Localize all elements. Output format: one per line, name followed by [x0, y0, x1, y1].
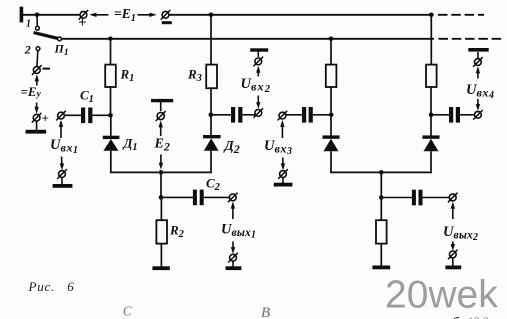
wire: output capacitor to Uвых2 terminal — [423, 197, 450, 199]
terminal: Uвх2 upper clamp — [254, 57, 264, 67]
wire: D2 anode down — [210, 151, 212, 173]
terminal: Uвх1 input clamp — [56, 111, 66, 121]
wire: Uвх3 return to ground — [282, 177, 284, 183]
resistor R1 — [105, 65, 116, 87]
svg-text:Д1: Д1 — [123, 136, 138, 154]
resistor (stage 4) — [426, 65, 437, 87]
ground (Uвых2) — [445, 266, 461, 270]
wire: node 1 to D1 cathode — [110, 115, 112, 135]
wire: second rail from switch pole — [61, 38, 434, 40]
switch П1 blade — [34, 33, 58, 39]
node: top rail / switch contact 1 — [35, 13, 40, 18]
terminal: Uвх3 return clamp — [278, 169, 288, 179]
wire: top rail main segment — [169, 14, 433, 16]
wire: Uвх3 terminal to stage-3 capacitor — [286, 114, 302, 116]
wire: second rail to stage-3 resistor — [330, 39, 332, 65]
wire: node 4 to D4 cathode — [430, 115, 432, 136]
diode Д2 — [203, 135, 221, 151]
wire: output node 2 down to stage-4 load resistor — [380, 198, 382, 221]
node: top rail / R3 branch — [209, 13, 214, 18]
wire: stage-3 resistor to node 3 — [330, 87, 332, 115]
wire: D4 anode down — [430, 151, 432, 173]
wire: arrow up toward Uвх3 terminal — [280, 120, 284, 138]
resistor (stage 3-4 load) — [376, 220, 387, 243]
wire: node 4 to stage-4 capacitor — [431, 114, 449, 116]
label: - (E1 polarity) — [162, 21, 172, 24]
wire: D1-D2 anode bus — [110, 171, 212, 173]
svg-text:В: В — [261, 305, 270, 319]
wire: arrow down toward Uвх4 line clamp — [476, 99, 480, 111]
node: second rail / stage-3 branch — [329, 37, 334, 42]
wire: anode bus down to output node 2 — [380, 172, 382, 197]
node 4 — [429, 113, 434, 118]
wire: output node 1 down to R2 — [160, 197, 162, 220]
wire: C2 to Uвых1 terminal — [204, 196, 230, 198]
wire: arrow up toward E2 terminal — [159, 120, 163, 136]
resistor (stage 3) — [326, 65, 337, 87]
svg-text:C1: C1 — [80, 88, 94, 106]
capacitor (stage-4 input) — [449, 107, 460, 123]
node 3 — [329, 113, 334, 118]
svg-text:E2: E2 — [154, 137, 170, 154]
wire: E2 ground stub — [160, 102, 162, 111]
svg-text:20wek: 20wek — [385, 274, 498, 317]
wire: anode bus down to output node 1 — [160, 172, 162, 197]
wire: arrow down toward Uвх3 return — [281, 158, 285, 171]
wire: Uвх1 terminal to C1 — [65, 114, 82, 116]
wire: arrow up toward Uвх4 upper clamp — [476, 66, 480, 78]
diode (stage 4) — [423, 135, 440, 151]
node: output 2 — [379, 195, 384, 200]
svg-text:Uвх3: Uвх3 — [264, 138, 292, 157]
wire: C1 to node 1 — [92, 114, 110, 116]
svg-text:=Eу: =Eу — [21, 84, 42, 100]
svg-text:2: 2 — [24, 43, 31, 57]
terminal: Uвых1 clamp — [228, 193, 238, 203]
ground (Uвх4, bar up) — [468, 48, 488, 52]
wire: R1 to node 1 — [110, 87, 112, 115]
label: - (Ey polarity) — [43, 68, 51, 70]
capacitor (stage-3 input) — [302, 107, 313, 123]
wire: arrow up toward Uвых2 terminal — [451, 202, 455, 219]
wire: arrow down toward Uвых1 return — [231, 242, 235, 254]
svg-text:=E1: =E1 — [114, 6, 136, 24]
wire: stage-4 branch from top rail (crosses second rail) — [430, 15, 432, 65]
wire: D3 anode down — [330, 151, 332, 173]
wire: arrow pointing to +E1 clamp — [89, 13, 108, 17]
ground (R2) — [152, 266, 169, 270]
svg-text:R3: R3 — [187, 66, 202, 84]
wire: node 2 to D2 cathode — [210, 115, 212, 135]
node: second rail / R1 branch — [108, 37, 113, 42]
wire: R3 to node 2 — [210, 88, 212, 115]
wire: arrow up toward -Ey terminal — [35, 74, 39, 85]
svg-text:C2: C2 — [206, 176, 221, 194]
svg-text:П1: П1 — [54, 42, 69, 59]
terminal: Uвых2 clamp — [448, 193, 458, 203]
wire: Uвых1 return to ground — [232, 261, 234, 267]
wire: top rail dashed continuation — [438, 14, 484, 16]
terminal: Uвых1 return clamp — [228, 253, 238, 263]
ground (Uвх2, bar up) — [250, 48, 268, 51]
ground (Uвх3) — [274, 183, 293, 187]
node: output 1 (R2 / C2) — [159, 195, 164, 200]
terminal: Uвх4 upper clamp — [473, 57, 483, 67]
terminal: E2 clamp — [156, 111, 166, 121]
capacitor (stage-2 input) — [231, 107, 242, 123]
wire: D1 anode down — [110, 151, 112, 173]
svg-text:Uвых2: Uвых2 — [443, 224, 478, 243]
wire: arrow down toward Uвх2 line clamp — [256, 96, 260, 110]
terminal: +E1 clamp — [79, 10, 89, 20]
wire: load resistor to ground — [380, 244, 382, 266]
wire: second rail to R1 — [110, 39, 112, 65]
wire: stage-4 capacitor to Uвх4 terminal — [460, 114, 475, 116]
ground (E2, bar up) — [151, 99, 173, 102]
wire: +Ey terminal to ground — [36, 121, 38, 130]
svg-text:Uвх1: Uвх1 — [50, 137, 78, 156]
svg-text:R1: R1 — [120, 66, 135, 84]
wire: Uвх2 ground stub — [257, 52, 259, 58]
wire: second rail dashed continuation — [439, 38, 505, 40]
wire: Uвх4 ground stub — [477, 52, 479, 59]
diode (stage 3) — [323, 135, 340, 151]
terminal: -Ey clamp — [32, 65, 42, 75]
wire: arrow down toward +Ey terminal — [34, 103, 38, 114]
capacitor (output 2) — [412, 190, 423, 206]
wire: arrow pointing to -E1 clamp — [138, 13, 157, 17]
svg-text:б: б — [452, 316, 460, 319]
svg-text:Uвх4: Uвх4 — [466, 82, 494, 101]
switch П1 pole contact — [58, 37, 62, 41]
wire: Uвх2 clamp to stage-2 capacitor — [242, 114, 255, 116]
svg-text:1: 1 — [26, 19, 31, 30]
wire: R2 to ground — [160, 243, 162, 266]
diode Д1 — [103, 136, 120, 151]
wire: R3 branch from top rail (crosses second rail) — [210, 15, 212, 65]
svg-text:R2: R2 — [169, 222, 185, 240]
terminal: Uвх3 input clamp — [278, 111, 288, 121]
capacitor C1 — [81, 108, 92, 124]
svg-text:+: + — [78, 15, 86, 31]
wire: arrow up toward Uвх2 upper clamp — [256, 66, 260, 77]
svg-text:Uвх2: Uвх2 — [241, 76, 271, 95]
wire: stage-2 capacitor to node 2 — [212, 114, 231, 116]
wire: stage-3 capacitor to node 3 — [313, 114, 331, 116]
node 1 (R1 / C1 / D1) — [108, 113, 113, 118]
svg-text:Д2: Д2 — [223, 138, 240, 156]
terminal: Uвх4 line clamp — [473, 110, 483, 120]
svg-text:Рис. 6: Рис. 6 — [28, 279, 75, 294]
wire: arrow down from E2 to anode bus — [159, 155, 163, 170]
ground (Ey) — [26, 130, 47, 134]
terminal: Uвх2 line clamp — [254, 108, 264, 118]
svg-text:Uвых1: Uвых1 — [221, 222, 256, 241]
terminal: Uвх1 return clamp — [57, 169, 67, 179]
node: top rail / stage-4 branch — [429, 13, 434, 18]
node 2 (R3 / D2 / stage-2 C) — [209, 113, 214, 118]
wire: arrow up toward Uвых1 terminal — [231, 202, 235, 219]
wire: arrow down toward Uвых2 return — [451, 242, 455, 251]
svg-text:12.3: 12.3 — [468, 314, 489, 319]
switch П1 contact 2 — [36, 47, 40, 51]
node: E2 / anode bus — [159, 170, 164, 175]
ground (Uвх1) — [53, 184, 73, 188]
wire: Uвых2 return to ground — [452, 258, 454, 266]
capacitor C2 — [193, 190, 204, 206]
wire: D3-D4 anode bus — [330, 171, 432, 173]
resistor R3 — [206, 65, 217, 89]
wire: node 3 to D3 cathode — [330, 115, 332, 136]
wire: stage-4 resistor to node 4 — [430, 87, 432, 115]
svg-text:+: + — [42, 111, 49, 126]
switch П1 contact 1 — [36, 26, 40, 30]
clipped caption fragments at bottom edge — [123, 304, 489, 319]
wire: contact 2 down to -Ey terminal — [36, 51, 39, 67]
ground (Uвых1) — [226, 266, 242, 270]
ground (left end of E1 rail) — [20, 7, 24, 23]
wire: output node 2 to output capacitor — [381, 197, 412, 199]
terminal: Uвых2 return clamp — [448, 250, 458, 260]
wire: top rail, ground to +E1 clamp — [22, 14, 80, 16]
node: anode bus / output branch 2 — [379, 170, 384, 175]
terminal: -E1 clamp — [161, 10, 171, 20]
wire: output node 1 to C2 — [161, 196, 193, 198]
svg-text:С: С — [123, 304, 133, 319]
wire: stub from top rail to switch contact 1 — [36, 15, 38, 26]
wire: arrow down toward Uвх1 return terminal — [60, 157, 64, 171]
ground (stage 3-4 load) — [372, 266, 390, 270]
resistor R2 — [156, 220, 167, 243]
terminal: +Ey clamp — [32, 113, 42, 123]
wire: Uвх1 return to ground — [61, 177, 63, 184]
wire: arrow up toward Uвх1 terminal — [59, 120, 63, 138]
